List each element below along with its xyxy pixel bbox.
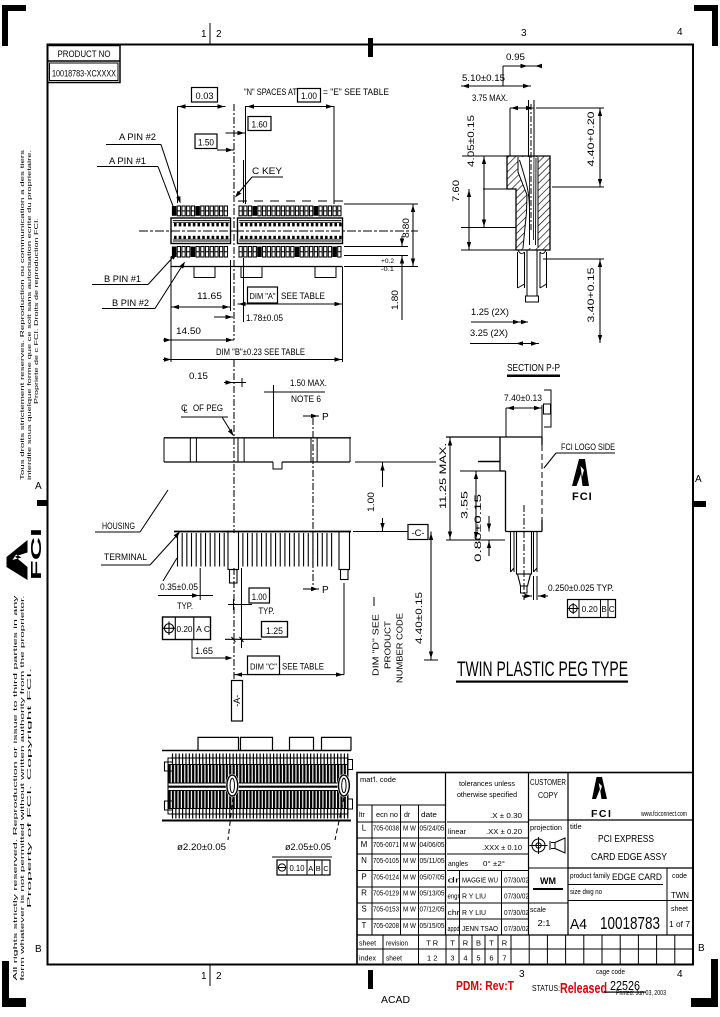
svg-text:0.35±0.05: 0.35±0.05: [160, 582, 198, 592]
svg-text:scale: scale: [530, 905, 546, 914]
svg-text:interdite sous quelque forme q: interdite sous quelque forme que ce soit…: [27, 150, 33, 480]
svg-text:otherwise specified: otherwise specified: [457, 790, 517, 799]
svg-text:DIM "C": DIM "C": [250, 662, 277, 672]
svg-text:11.25 MAX.: 11.25 MAX.: [438, 443, 448, 509]
svg-text:1.25 (2X): 1.25 (2X): [471, 307, 509, 317]
svg-text:0.10: 0.10: [290, 864, 306, 873]
svg-text:TWN: TWN: [671, 890, 689, 900]
svg-text:Printed: Jun 03, 2003: Printed: Jun 03, 2003: [616, 988, 666, 997]
svg-text:07/30/02: 07/30/02: [504, 910, 529, 917]
svg-text:JENN TSAO: JENN TSAO: [462, 924, 498, 933]
svg-text:07/30/02: 07/30/02: [504, 926, 529, 933]
svg-text:Released: Released: [560, 981, 607, 997]
svg-text:705-0105: 705-0105: [373, 856, 399, 865]
svg-text:T R: T R: [426, 939, 439, 948]
svg-text:M: M: [361, 840, 368, 849]
svg-text:705-0208: 705-0208: [373, 921, 399, 930]
svg-text:4: 4: [677, 969, 683, 980]
svg-text:0.250±0.025 TYP.: 0.250±0.025 TYP.: [548, 583, 614, 593]
svg-text:1.00: 1.00: [252, 592, 267, 602]
svg-text:2:1: 2:1: [538, 918, 551, 928]
svg-text:4.40±0.15: 4.40±0.15: [414, 592, 424, 644]
svg-text:.XXX ± 0.10: .XXX ± 0.10: [482, 843, 522, 852]
svg-text:7: 7: [502, 954, 506, 963]
svg-text:NOTE 6: NOTE 6: [291, 394, 321, 404]
svg-text:ltr: ltr: [359, 812, 366, 819]
svg-text:FCI: FCI: [591, 808, 612, 820]
svg-text:1.78±0.05: 1.78±0.05: [246, 313, 283, 323]
svg-text:T: T: [450, 939, 455, 948]
svg-text:L: L: [362, 824, 367, 833]
svg-text:07/12/05: 07/12/05: [420, 905, 445, 914]
svg-text:SEE TABLE: SEE TABLE: [282, 662, 324, 672]
svg-text:B: B: [601, 605, 606, 614]
svg-text:A4: A4: [570, 917, 587, 933]
svg-text:revision: revision: [386, 941, 408, 948]
svg-text:1: 1: [201, 971, 207, 982]
svg-text:05/13/05: 05/13/05: [420, 889, 445, 898]
svg-text:B: B: [698, 943, 705, 954]
svg-text:www.fciconnect.com: www.fciconnect.com: [640, 811, 687, 818]
svg-text:ø2.05±0.05: ø2.05±0.05: [285, 842, 331, 852]
svg-text:angles: angles: [448, 859, 468, 868]
svg-text:PDM: Rev:T: PDM: Rev:T: [456, 979, 514, 993]
svg-text:11.65: 11.65: [197, 291, 222, 301]
svg-text:5: 5: [476, 954, 480, 963]
svg-text:EDGE CARD: EDGE CARD: [612, 872, 662, 883]
svg-text:ACAD: ACAD: [381, 995, 410, 1006]
svg-text:NUMBER CODE: NUMBER CODE: [396, 613, 405, 683]
svg-text:8.80: 8.80: [401, 218, 411, 238]
svg-text:FCI: FCI: [28, 528, 45, 580]
svg-text:-C-: -C-: [412, 528, 425, 538]
svg-text:ø2.20±0.05: ø2.20±0.05: [177, 842, 226, 852]
svg-text:PCI EXPRESS: PCI EXPRESS: [598, 834, 654, 845]
svg-text:S: S: [361, 905, 366, 914]
svg-text:"N" SPACES AT: "N" SPACES AT: [244, 87, 297, 97]
svg-text:4.05±0.15: 4.05±0.15: [466, 115, 476, 167]
svg-text:M W: M W: [403, 889, 417, 898]
svg-text:T: T: [489, 939, 494, 948]
svg-text:0.95: 0.95: [506, 52, 525, 62]
svg-text:14.50: 14.50: [176, 326, 201, 336]
svg-text:3.40+0.15: 3.40+0.15: [586, 268, 596, 323]
svg-text:-0.1: -0.1: [381, 266, 394, 273]
svg-text:P: P: [322, 585, 329, 596]
svg-text:M W: M W: [403, 840, 417, 849]
svg-text:1.80: 1.80: [390, 290, 400, 310]
svg-text:WM: WM: [540, 876, 556, 886]
svg-text:0.80±0.15: 0.80±0.15: [473, 494, 483, 562]
svg-text:R Y LIU: R Y LIU: [462, 892, 486, 901]
svg-text:Propriete de c FCI. Droits: Propriete de c FCI. Droits de reproducti…: [34, 218, 40, 404]
svg-text:1.60: 1.60: [252, 120, 268, 130]
svg-text:DIM "B"±0.23 SEE TABLE: DIM "B"±0.23 SEE TABLE: [216, 347, 305, 357]
svg-text:M W: M W: [403, 921, 417, 930]
svg-text:M W: M W: [403, 856, 417, 865]
svg-text:sheet: sheet: [386, 956, 402, 963]
svg-text:FCI LOGO SIDE: FCI LOGO SIDE: [561, 442, 615, 452]
svg-text:4.40+0.20: 4.40+0.20: [586, 112, 596, 167]
svg-text:705-0071: 705-0071: [373, 840, 399, 849]
svg-text:0° ±2°: 0° ±2°: [483, 859, 505, 868]
svg-text:705-0124: 705-0124: [373, 872, 399, 881]
svg-text:sheet: sheet: [671, 904, 689, 913]
svg-text:3: 3: [519, 969, 525, 980]
svg-text:R Y LIU: R Y LIU: [462, 908, 486, 917]
svg-text:705-0129: 705-0129: [373, 889, 399, 898]
svg-text:A: A: [35, 481, 42, 492]
svg-text:R: R: [361, 889, 367, 898]
svg-text:B PIN #1: B PIN #1: [104, 274, 141, 284]
svg-text:HOUSING: HOUSING: [102, 521, 135, 531]
svg-text:R: R: [463, 939, 469, 948]
svg-text:C: C: [323, 864, 329, 873]
svg-text:P: P: [322, 412, 329, 423]
svg-text:index: index: [359, 956, 377, 963]
svg-text:Property of FCI. Copyright F: Property of FCI. Copyright FCI.: [27, 668, 33, 908]
svg-text:4: 4: [463, 954, 467, 963]
svg-text:3.25 (2X): 3.25 (2X): [470, 328, 508, 338]
svg-text:1.50: 1.50: [198, 138, 214, 148]
svg-text:B: B: [316, 864, 321, 873]
svg-text:1: 1: [201, 29, 207, 40]
svg-text:B: B: [35, 944, 42, 955]
svg-text:B PIN #2: B PIN #2: [112, 298, 149, 308]
svg-text:mat'l. code: mat'l. code: [360, 775, 396, 784]
svg-text:M W: M W: [403, 905, 417, 914]
svg-text:dr: dr: [448, 878, 461, 885]
svg-text:All rights strictly reserved.: All rights strictly reserved. Reproducti…: [13, 595, 19, 981]
svg-text:FCI: FCI: [572, 491, 593, 503]
svg-text:TYP.: TYP.: [177, 601, 193, 611]
svg-text:.X ± 0.30: .X ± 0.30: [490, 811, 522, 820]
svg-text:M W: M W: [403, 824, 417, 833]
svg-text:appd: appd: [448, 926, 460, 933]
svg-text:3: 3: [450, 954, 454, 963]
svg-text:6: 6: [489, 954, 493, 963]
svg-text:1.65: 1.65: [195, 646, 213, 656]
svg-text:CARD EDGE ASSY: CARD EDGE ASSY: [591, 852, 667, 863]
svg-text:OF PEG: OF PEG: [193, 403, 223, 413]
svg-text:A: A: [196, 624, 202, 634]
svg-text:projection: projection: [530, 823, 562, 832]
svg-text:A: A: [308, 864, 313, 873]
svg-text:A: A: [695, 474, 702, 485]
svg-text:+0.2: +0.2: [381, 258, 394, 265]
svg-text:TYP.: TYP.: [259, 606, 275, 616]
svg-text:T: T: [362, 921, 367, 930]
svg-text:0.15: 0.15: [189, 371, 208, 381]
svg-text:PRODUCT: PRODUCT: [384, 621, 393, 669]
svg-text:B: B: [476, 939, 481, 948]
svg-text:A PIN #2: A PIN #2: [119, 132, 156, 142]
svg-text:SEE TABLE: SEE TABLE: [281, 291, 325, 301]
svg-text:05/15/05: 05/15/05: [420, 921, 445, 930]
svg-text:07/30/02: 07/30/02: [504, 894, 529, 901]
svg-text:05/11/05: 05/11/05: [420, 856, 445, 865]
svg-text:C KEY: C KEY: [252, 166, 282, 176]
svg-text:0.20: 0.20: [582, 605, 599, 614]
svg-text:M W: M W: [403, 872, 417, 881]
svg-text:MAGGIE WU: MAGGIE WU: [462, 876, 498, 885]
svg-text:2: 2: [216, 29, 222, 40]
svg-text:cage code: cage code: [596, 967, 625, 976]
svg-text:05/07/05: 05/07/05: [420, 872, 445, 881]
svg-text:705-0038: 705-0038: [373, 824, 399, 833]
svg-text:date: date: [421, 812, 437, 819]
svg-text:DIM "A": DIM "A": [250, 291, 276, 301]
svg-text:engr: engr: [448, 894, 461, 901]
svg-text:= "E" SEE TABLE: = "E" SEE TABLE: [323, 87, 389, 97]
svg-text:0.03: 0.03: [196, 91, 214, 101]
svg-text:3.75 MAX.: 3.75 MAX.: [472, 93, 508, 103]
svg-text:TWIN PLASTIC PEG TYPE: TWIN PLASTIC PEG TYPE: [457, 657, 628, 681]
svg-text:3.55: 3.55: [460, 491, 470, 519]
svg-text:4: 4: [677, 27, 683, 38]
svg-text:CUSTOMER: CUSTOMER: [530, 778, 566, 787]
svg-text:1.25: 1.25: [266, 626, 283, 636]
svg-text:form whatever is not permitted: form whatever is not permitted without w…: [20, 596, 26, 981]
svg-text:linear: linear: [448, 827, 466, 836]
svg-text:sheet: sheet: [359, 941, 376, 948]
svg-text:5.10±0.15: 5.10±0.15: [462, 73, 505, 83]
svg-text:7.40±0.13: 7.40±0.13: [504, 393, 542, 403]
svg-text:Tous droits strictement reserv: Tous droits strictement reserves. Reprod…: [20, 149, 26, 480]
svg-text:dr: dr: [404, 812, 411, 819]
svg-text:07/30/02: 07/30/02: [504, 878, 529, 885]
svg-text:code: code: [672, 873, 687, 880]
svg-text:1 of 7: 1 of 7: [669, 919, 690, 929]
svg-text:tolerances unless: tolerances unless: [459, 779, 515, 788]
svg-text:10018783-XCXXXX: 10018783-XCXXXX: [52, 69, 116, 79]
svg-text:PRODUCT NO: PRODUCT NO: [58, 49, 111, 59]
svg-text:1.00: 1.00: [301, 91, 317, 101]
svg-text:product family: product family: [570, 873, 610, 880]
svg-text:COPY: COPY: [538, 791, 559, 800]
svg-text:TERMINAL: TERMINAL: [104, 552, 147, 562]
svg-text:STATUS:: STATUS:: [532, 984, 560, 993]
svg-text:705-0153: 705-0153: [373, 905, 399, 914]
svg-text:C: C: [609, 605, 615, 614]
svg-text:10018783: 10018783: [600, 913, 660, 933]
svg-text:05/24/05: 05/24/05: [420, 824, 445, 833]
svg-text:C: C: [204, 624, 210, 634]
svg-text:3: 3: [521, 28, 527, 39]
svg-text:L: L: [184, 406, 189, 415]
svg-text:P: P: [361, 872, 366, 881]
svg-text:-A-: -A-: [232, 695, 242, 707]
svg-text:title: title: [570, 822, 582, 831]
svg-text:R: R: [502, 939, 508, 948]
svg-text:7.60: 7.60: [451, 180, 461, 202]
svg-text:1.50 MAX.: 1.50 MAX.: [290, 378, 327, 388]
svg-text:N: N: [361, 856, 367, 865]
svg-text:ecn no: ecn no: [376, 812, 398, 819]
svg-text:DIM "D" SEE: DIM "D" SEE: [372, 614, 381, 676]
svg-text:04/06/05: 04/06/05: [420, 840, 445, 849]
svg-text:1.00: 1.00: [366, 492, 376, 512]
svg-text:2: 2: [216, 971, 222, 982]
svg-text:0.20: 0.20: [177, 624, 193, 634]
svg-text:A PIN #1: A PIN #1: [109, 156, 146, 166]
svg-text:.XX ± 0.20: .XX ± 0.20: [486, 827, 522, 836]
svg-text:1 2: 1 2: [427, 954, 437, 963]
svg-text:size dwg no: size dwg no: [570, 889, 602, 896]
svg-text:SECTION P-P: SECTION P-P: [507, 363, 560, 374]
svg-text:chr: chr: [448, 910, 461, 917]
